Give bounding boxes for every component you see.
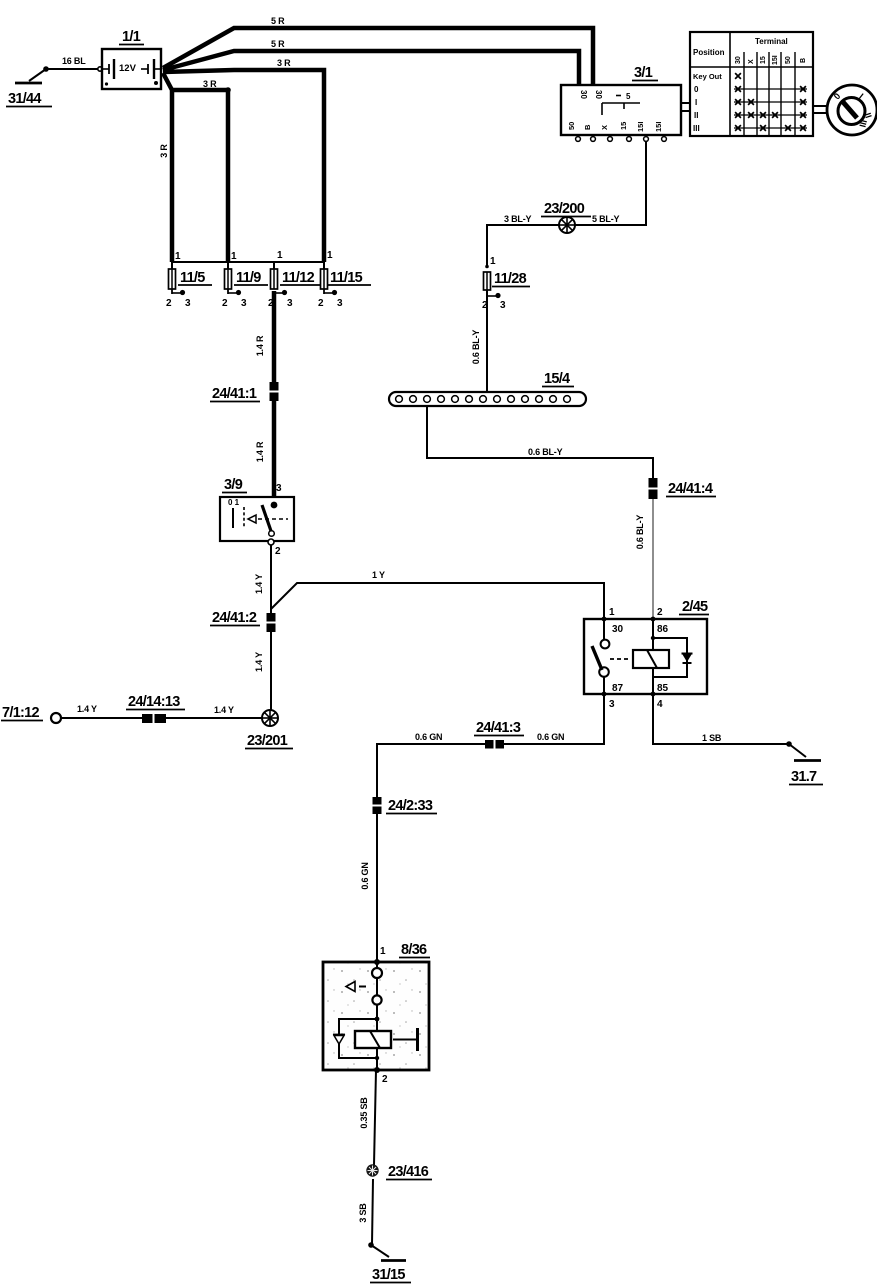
svg-text:0.6 BL-Y: 0.6 BL-Y [635, 515, 645, 550]
svg-text:3: 3 [276, 483, 282, 494]
svg-text:B: B [800, 58, 807, 63]
svg-text:11/9: 11/9 [236, 270, 261, 286]
svg-text:30: 30 [594, 90, 603, 99]
svg-text:1 SB: 1 SB [702, 733, 722, 743]
svg-text:23/200: 23/200 [544, 201, 585, 217]
svg-text:50: 50 [785, 56, 792, 64]
svg-text:3: 3 [500, 300, 506, 311]
svg-text:24/41:1: 24/41:1 [212, 386, 257, 402]
svg-text:5: 5 [626, 92, 631, 101]
svg-text:87: 87 [612, 683, 624, 694]
svg-text:II: II [694, 111, 698, 120]
svg-text:31/44: 31/44 [8, 91, 41, 107]
svg-text:5 R: 5 R [271, 39, 285, 49]
svg-text:3 SB: 3 SB [358, 1203, 368, 1223]
svg-text:24/14:13: 24/14:13 [128, 694, 180, 710]
svg-text:15I: 15I [654, 122, 663, 132]
svg-text:3 R: 3 R [159, 144, 169, 158]
svg-text:3: 3 [337, 298, 343, 309]
svg-text:15/4: 15/4 [544, 371, 570, 387]
svg-text:Key Out: Key Out [693, 72, 722, 81]
svg-text:0.6 BL-Y: 0.6 BL-Y [528, 447, 563, 457]
svg-text:2: 2 [275, 546, 281, 557]
svg-text:3: 3 [609, 699, 615, 710]
svg-text:1: 1 [490, 256, 496, 267]
svg-text:16 BL: 16 BL [62, 56, 86, 66]
svg-text:2: 2 [222, 298, 228, 309]
svg-text:30: 30 [612, 624, 624, 635]
svg-text:24/2:33: 24/2:33 [388, 798, 433, 814]
svg-text:3: 3 [241, 298, 247, 309]
svg-text:5 R: 5 R [271, 16, 285, 26]
svg-text:30: 30 [579, 90, 588, 99]
svg-text:0.6 GN: 0.6 GN [360, 862, 370, 889]
svg-text:1: 1 [380, 946, 386, 957]
svg-text:3: 3 [185, 298, 191, 309]
svg-text:3: 3 [287, 298, 293, 309]
svg-text:1.4 Y: 1.4 Y [254, 574, 264, 594]
svg-text:5 BL-Y: 5 BL-Y [592, 214, 620, 224]
svg-text:1.4 Y: 1.4 Y [214, 705, 234, 715]
svg-text:Terminal: Terminal [755, 37, 788, 46]
svg-text:X: X [600, 125, 609, 130]
svg-text:2: 2 [318, 298, 324, 309]
svg-text:11/15: 11/15 [330, 270, 363, 286]
svg-text:0.6 GN: 0.6 GN [415, 732, 442, 742]
svg-text:2: 2 [657, 607, 663, 618]
svg-text:3 R: 3 R [203, 79, 217, 89]
svg-text:3 BL-Y: 3 BL-Y [504, 214, 532, 224]
svg-text:31.7: 31.7 [791, 769, 817, 785]
svg-text:1.4 R: 1.4 R [255, 335, 265, 356]
svg-text:1.4 Y: 1.4 Y [77, 704, 97, 714]
svg-text:1.4 R: 1.4 R [255, 441, 265, 462]
svg-text:0.6 GN: 0.6 GN [537, 732, 564, 742]
svg-text:1.4 Y: 1.4 Y [254, 652, 264, 672]
svg-text:3/9: 3/9 [224, 477, 243, 493]
svg-text:15: 15 [619, 122, 628, 130]
svg-text:12V: 12V [119, 63, 137, 74]
svg-text:B: B [583, 124, 592, 130]
svg-text:1: 1 [175, 251, 181, 262]
svg-text:7/1:12: 7/1:12 [2, 705, 40, 721]
svg-text:0 1: 0 1 [228, 498, 240, 507]
svg-text:85: 85 [657, 683, 669, 694]
svg-text:0: 0 [694, 85, 699, 94]
svg-text:2: 2 [166, 298, 172, 309]
svg-text:8/36: 8/36 [401, 942, 427, 958]
svg-text:2: 2 [382, 1074, 388, 1085]
svg-text:11/5: 11/5 [180, 270, 205, 286]
svg-text:31/15: 31/15 [372, 1267, 405, 1283]
svg-text:24/41:2: 24/41:2 [212, 610, 257, 626]
svg-text:3 R: 3 R [277, 58, 291, 68]
svg-text:23/416: 23/416 [388, 1164, 429, 1180]
svg-text:23/201: 23/201 [247, 733, 288, 749]
svg-text:1/1: 1/1 [122, 29, 141, 45]
svg-text:11/12: 11/12 [282, 270, 315, 286]
svg-text:15I: 15I [636, 122, 645, 132]
svg-text:11/28: 11/28 [494, 271, 527, 287]
svg-text:1: 1 [609, 607, 615, 618]
svg-text:I: I [695, 98, 697, 107]
svg-text:1: 1 [277, 250, 283, 261]
svg-text:15I: 15I [772, 55, 779, 65]
svg-text:2: 2 [268, 298, 274, 309]
svg-text:Position: Position [693, 48, 725, 57]
svg-text:0.35 SB: 0.35 SB [359, 1097, 369, 1129]
svg-text:1: 1 [327, 250, 333, 261]
svg-text:50: 50 [567, 122, 576, 130]
svg-text:X: X [748, 59, 755, 64]
svg-text:3/1: 3/1 [634, 65, 653, 81]
svg-text:86: 86 [657, 624, 669, 635]
svg-text:1: 1 [231, 251, 237, 262]
svg-text:2/45: 2/45 [682, 599, 708, 615]
svg-text:15: 15 [760, 56, 767, 64]
svg-text:4: 4 [657, 699, 663, 710]
svg-text:0.6 BL-Y: 0.6 BL-Y [471, 330, 481, 365]
svg-text:III: III [693, 124, 700, 133]
svg-text:24/41:3: 24/41:3 [476, 720, 521, 736]
svg-text:24/41:4: 24/41:4 [668, 481, 713, 497]
svg-text:30: 30 [735, 56, 742, 64]
svg-text:1 Y: 1 Y [372, 570, 385, 580]
